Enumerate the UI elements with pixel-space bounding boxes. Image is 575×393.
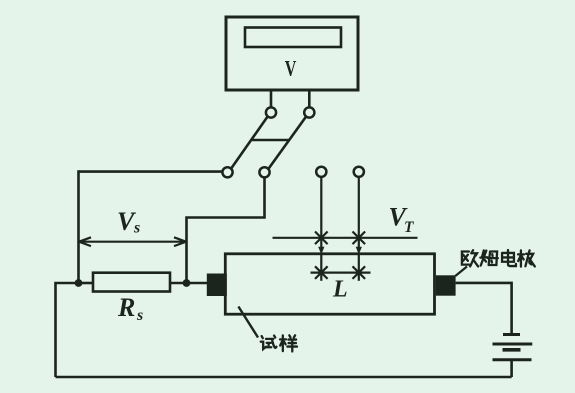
switch contact bottom-mid [259,167,269,177]
electrode pointer line [455,267,467,277]
svg-text:s: s [133,220,140,237]
switch contact top-left [266,107,276,117]
label ohmic electrode 欧姆电极 [462,250,535,267]
sample pointer line [238,307,258,338]
battery plate 2 long [493,343,533,346]
svg-text:R: R [117,293,135,322]
probe wire right [358,177,360,249]
battery plate 1 short [503,333,520,336]
wire left node to bottom-left corner [56,283,79,377]
wire left vertical branch [77,170,80,283]
char 极 [518,250,535,266]
wire meter left terminal [270,90,273,108]
junction node left of Rs [75,279,83,287]
junction node right of Rs [183,279,191,287]
switch contact top-right [304,107,314,117]
probe arrowhead left [318,247,324,255]
probe contact left [316,167,326,177]
char 欧 [462,250,478,266]
witness line left inside sample [320,255,322,281]
Vs dimension arrow line [81,241,184,243]
voltmeter V box [226,17,358,90]
battery plate 3 short [503,348,521,352]
L tick left [315,266,328,279]
svg-text:V: V [285,57,297,81]
switch tie bar [252,139,289,142]
voltmeter label V [285,57,297,81]
char 姆 [480,250,497,265]
switch arm left [231,116,268,169]
VT tick left [315,232,328,245]
sample body (试样) [225,254,434,314]
voltmeter display window [245,28,341,48]
right ohmic electrode [436,275,456,295]
svg-text:T: T [404,219,414,236]
VT tick right [353,232,366,245]
wire right electrode to battery top [456,283,512,334]
L dimension line [311,272,371,274]
svg-text:L: L [332,277,348,303]
wire meter right terminal [308,90,311,108]
wire switch to left branch [79,170,223,173]
wire from bottom-mid contact to resistor right node [187,177,265,283]
wire resistor right to node [170,282,187,285]
wire battery bottom [510,360,513,377]
bottom wire [56,376,512,379]
left ohmic electrode [207,274,227,297]
probe contact right [354,167,364,177]
svg-text:s: s [136,307,143,324]
wire node to resistor left [79,282,94,285]
VT dimension line [273,237,418,239]
probe wire left [320,177,322,249]
battery plate 4 long [493,358,532,361]
switch contact bottom-left [222,167,232,177]
switch arm right [268,116,306,169]
L tick right [353,266,366,279]
char 样 [280,335,297,351]
label sample 试样 [261,335,297,351]
char 试 [261,336,277,349]
witness line right inside sample [358,255,360,281]
Vs arrowhead left [79,237,91,246]
Vs arrowhead right [174,237,186,246]
resistor Rs [93,273,170,292]
probe arrowhead right [356,247,362,255]
char 电 [502,250,516,266]
wire right node to left electrode [187,282,208,285]
